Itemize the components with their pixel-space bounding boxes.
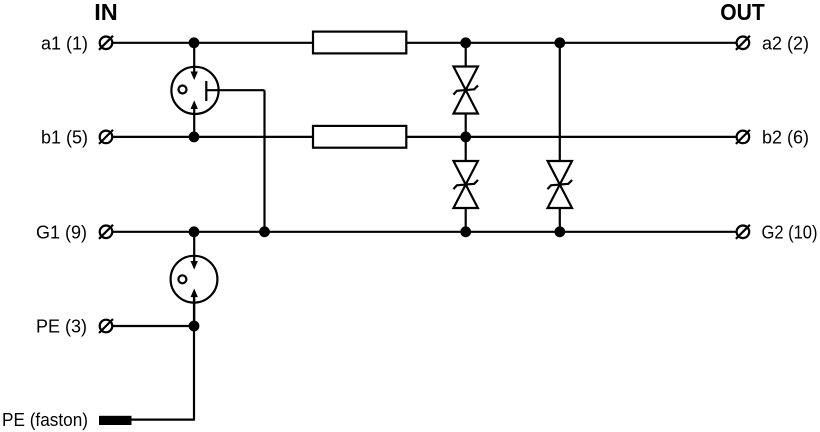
svg-text:G2 (10): G2 (10) [762,222,818,242]
terminal G2 [736,225,750,239]
junction G1-V2 [460,226,471,237]
svg-text:OUT: OUT [720,0,765,25]
junction b1-GDT1 [189,132,200,143]
junction a1-GDT1 [189,37,200,48]
terminal b2 [736,130,750,144]
TVS diode V2 [453,161,478,208]
wire faston line [131,419,195,421]
svg-text:b2 (6): b2 (6) [762,127,809,147]
terminal PE (3) [99,319,113,333]
junction G1-GDT1 electrode [259,226,270,237]
wire PE vertical [193,293,195,420]
resistor R2 [313,126,406,148]
gas discharge tube F1 [171,67,218,114]
wire TVS column 2 vertical [559,43,561,232]
wire GDT2 top lead [193,232,195,264]
wire GDT2 bottom lead [193,295,195,326]
svg-text:a1 (1): a1 (1) [41,33,88,53]
terminal G1 [99,225,113,239]
wire GDT1 top lead [193,43,195,74]
svg-text:PE (3): PE (3) [36,317,87,337]
junction b1-V1 [460,132,471,143]
wire b1 line [113,136,737,138]
svg-text:IN: IN [94,0,118,25]
svg-text:PE (faston): PE (faston) [2,410,88,430]
junction a1-V3 [554,37,565,48]
wire PE (3) line [113,325,195,327]
wire TVS column 1 vertical [465,43,467,232]
wire G1 line [113,231,737,233]
resistor R1 [313,32,406,54]
junction G1-GDT2 [189,226,200,237]
terminal a2 [736,36,750,50]
junction G1-V3 [554,226,565,237]
wire GDT1 bottom lead [193,106,195,137]
svg-text:G1 (9): G1 (9) [36,222,87,242]
terminal a1 [99,36,113,50]
terminal b1 [99,130,113,144]
junction a1-V1 [460,37,471,48]
svg-text:a2 (2): a2 (2) [762,33,809,53]
junction PE3 [189,321,200,332]
terminal PE faston [99,416,132,425]
wire a1 line [113,42,737,44]
TVS diode V3 [548,161,573,208]
svg-text:b1 (5): b1 (5) [41,127,88,147]
gas discharge tube F2 [171,256,218,303]
wire GDT1 third electrode vertical [263,90,265,232]
wire GDT1 third electrode horizontal [206,89,264,91]
TVS diode V1 [453,67,478,114]
